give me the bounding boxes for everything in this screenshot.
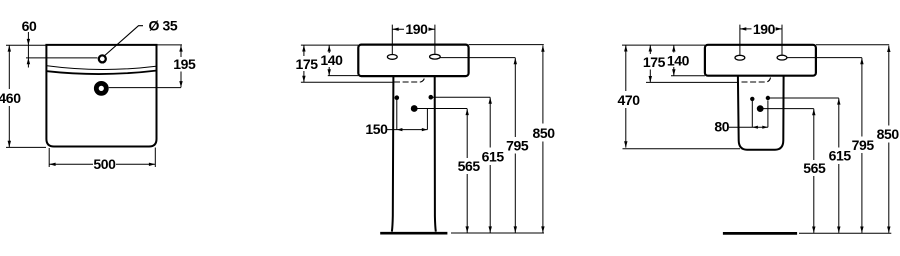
dim 60 extension line at tap height [26, 57, 98, 59]
dim 850 extension (top edge continue) [469, 44, 544, 46]
arrow 470 bottom [624, 141, 627, 147]
deck lower curve [47, 71, 156, 74]
arrow 140 bottom [672, 69, 675, 75]
dim 565 vertical [466, 109, 468, 233]
dim 150 line [387, 129, 427, 131]
arrow 80 right [762, 126, 768, 129]
basin side outline [705, 45, 816, 76]
arrow 500 right [149, 163, 155, 166]
dim 795 vertical [861, 58, 863, 233]
floor extension thin [799, 232, 891, 234]
hidden dashed trap outline [742, 78, 771, 83]
dim 175 vertical [303, 45, 305, 82]
tap hole ellipse right [430, 54, 441, 59]
drain line to 565 [414, 108, 467, 110]
dim 615 vertical [838, 98, 840, 233]
svg-text:850: 850 [533, 125, 556, 141]
dim 500 extension lines [49, 148, 155, 168]
dim 795 vertical [514, 58, 516, 233]
pedestal back edge [435, 76, 436, 231]
arrow 565 bottom [812, 227, 815, 233]
svg-text:Ø 35: Ø 35 [149, 18, 178, 34]
arrow 565 top [812, 109, 815, 115]
dim 150 right vertical [426, 109, 428, 130]
arrow 175 bottom [649, 76, 652, 82]
arrow 500 left [49, 163, 55, 166]
arrow 470 top [624, 45, 627, 51]
svg-text:195: 195 [173, 56, 196, 72]
dim 190 extension lines [740, 25, 782, 55]
top extension line [6, 44, 46, 46]
dim 195 top extension (top edge continue) [157, 44, 183, 46]
arrow 190 left [740, 27, 746, 30]
drain line to 565 [760, 108, 814, 110]
arrow 850 top [541, 45, 544, 51]
arrow 195 top [179, 45, 182, 51]
svg-text:615: 615 [482, 149, 505, 165]
fixing hole dot right [766, 96, 770, 100]
dim 140 bottom extension [328, 75, 359, 77]
svg-text:615: 615 [829, 147, 852, 163]
fixing hole line to 615 [431, 96, 490, 98]
dim 470 vertical [625, 45, 627, 148]
basin front outline [46, 45, 156, 147]
fixing hole dot right [429, 95, 434, 100]
arrow 795 bottom [514, 226, 517, 232]
arrow 615 top [489, 97, 492, 103]
fixing hole dot left [750, 97, 754, 101]
dim 140 vertical [673, 45, 675, 76]
arrow 190 left [392, 28, 398, 31]
tap hole ellipse left [735, 55, 745, 60]
semi-pedestal outline [738, 76, 784, 150]
svg-text:795: 795 [506, 138, 529, 154]
floor line thick [723, 232, 797, 235]
svg-text:80: 80 [714, 119, 729, 135]
arrow 140 bottom [328, 69, 331, 75]
tap hole ellipse right [777, 55, 787, 60]
arrow 190 right [776, 27, 782, 30]
pedestal front edge [392, 76, 394, 231]
arrow 615 top [837, 98, 840, 104]
dim 500 line [49, 163, 155, 165]
arrow 60 top [27, 39, 30, 45]
arrow 850 top [887, 46, 890, 52]
svg-text:60: 60 [22, 18, 37, 34]
arrow 565 bottom [466, 226, 469, 232]
dim 195 vertical line [180, 45, 182, 87]
dim 80 extension from holes [752, 101, 768, 128]
svg-text:565: 565 [458, 158, 481, 174]
tap hole ellipse left [387, 55, 397, 60]
arrow 615 bottom [489, 226, 492, 232]
arrow 195 bottom [179, 81, 182, 87]
dim 140 vertical [328, 45, 330, 76]
dim 150 extension from left hole [396, 100, 398, 130]
svg-text:140: 140 [320, 52, 343, 68]
arrow 565 top [466, 109, 469, 115]
svg-text:140: 140 [667, 52, 690, 68]
arrow 60 bottom [27, 58, 30, 64]
arrow 140 top [672, 45, 675, 51]
svg-text:850: 850 [877, 126, 900, 142]
arrow 460 top [8, 45, 11, 51]
floor extension thin [451, 232, 544, 234]
svg-text:175: 175 [643, 54, 666, 70]
svg-text:795: 795 [852, 137, 875, 153]
svg-text:470: 470 [618, 92, 641, 108]
svg-text:190: 190 [753, 21, 776, 37]
arrow 150 left [397, 128, 403, 131]
arrow 190 right [429, 28, 435, 31]
svg-text:565: 565 [803, 160, 826, 176]
dim 565 vertical [813, 109, 815, 233]
arrow 80 left [752, 126, 758, 129]
dim 175 vertical [649, 45, 651, 82]
dim 795 extension from ellipse [440, 57, 515, 59]
dim 140 bottom extension [671, 75, 705, 77]
svg-text:175: 175 [296, 56, 319, 72]
top extension line (175/140/470) [622, 44, 705, 46]
svg-text:460: 460 [0, 90, 21, 106]
overflow hole [96, 83, 106, 93]
dim 850 vertical [542, 45, 544, 232]
dim 175 bottom extension [646, 81, 739, 83]
arrow 175 bottom [302, 76, 305, 82]
arrow 795 top [860, 58, 863, 64]
hidden dashed trap outline [394, 78, 425, 83]
fixing hole dot left [395, 95, 400, 100]
floor line thick [380, 232, 447, 235]
dim 470 bottom extension [623, 148, 741, 150]
svg-text:150: 150 [365, 121, 388, 137]
svg-text:190: 190 [405, 21, 428, 37]
dim 850 extension (top edge continue) [816, 44, 889, 46]
dim 190 line [740, 28, 782, 30]
drain hole dot [411, 105, 418, 112]
arrow 150 right [422, 128, 428, 131]
leader line to Ø35 [105, 26, 143, 56]
tap hole [99, 55, 106, 62]
dim 615 vertical [489, 97, 491, 232]
deck upper curve [47, 66, 156, 70]
dim 460 vertical line [8, 45, 10, 147]
arrow 795 bottom [860, 227, 863, 233]
drain hole dot [757, 105, 764, 112]
dim 175 bottom extension [301, 81, 393, 83]
arrow 850 bottom [541, 226, 544, 232]
svg-text:500: 500 [93, 156, 116, 172]
basin side outline [358, 45, 468, 77]
dim 795 extension from ellipse [787, 57, 862, 59]
dim 190 extension lines [392, 25, 435, 54]
dim 195 connector from overflow [109, 87, 181, 89]
dim 60 vertical line [27, 32, 29, 68]
fixing hole line to 615 [768, 97, 839, 99]
arrow 175 top [302, 45, 305, 51]
arrow 850 bottom [887, 227, 890, 233]
bottom extension line 460 [6, 146, 46, 148]
arrow 175 top [649, 45, 652, 51]
arrow 460 bottom [8, 141, 11, 147]
dim 80 line [729, 126, 768, 128]
top extension line (175/140) [301, 44, 358, 46]
dim 190 line [392, 28, 435, 30]
arrow 795 top [514, 58, 517, 64]
dim 850 vertical [888, 46, 890, 233]
arrow 140 top [328, 45, 331, 51]
arrow 615 bottom [837, 227, 840, 233]
